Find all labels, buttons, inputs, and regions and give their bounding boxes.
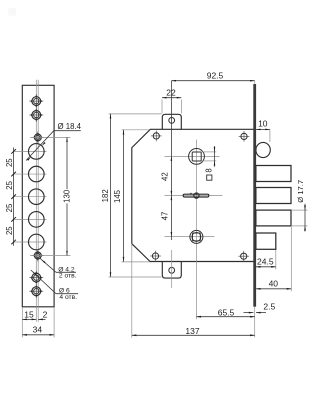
svg-text:2.5: 2.5 <box>263 302 275 312</box>
deadbolt #2 <box>256 188 291 204</box>
cylinder boss (edge view) <box>256 142 270 157</box>
screw hole O6 top #2 <box>29 114 43 116</box>
dimension 22 <box>161 100 163 114</box>
strip centerline (hole axis 1) <box>35 80 37 322</box>
svg-text:47: 47 <box>161 212 170 221</box>
dimension 137 <box>132 334 255 336</box>
svg-text:145: 145 <box>113 189 122 203</box>
dimension chain 25x4 <box>13 148 15 246</box>
fixing hole bottom-left <box>150 255 161 257</box>
faceplate strip outline (side view) <box>22 85 54 306</box>
keyhole slot <box>183 194 209 197</box>
svg-text:25: 25 <box>5 158 14 167</box>
fixing hole bottom-right <box>238 255 249 257</box>
svg-text:25: 25 <box>5 226 14 235</box>
upper follower centerline <box>165 155 220 157</box>
svg-text:182: 182 <box>101 189 110 202</box>
svg-text:25: 25 <box>5 203 14 212</box>
lower follower centerline <box>165 236 215 238</box>
deadbolt #3 <box>256 210 291 226</box>
hole O18.4 #3 <box>29 189 45 205</box>
upper square follower 8mm <box>189 149 205 165</box>
dimension square 8 <box>202 151 217 153</box>
top mounting tab <box>162 114 181 129</box>
screw hole O4.2 top <box>32 136 44 138</box>
deadbolt #1 <box>256 166 291 182</box>
dimension 24.5 <box>275 250 277 270</box>
svg-text:8: 8 <box>205 168 214 172</box>
svg-text:137: 137 <box>185 326 199 336</box>
dimension 145 <box>122 129 150 131</box>
screw hole O6 top #1 <box>29 100 43 102</box>
screw hole O6 bottom #2 <box>29 290 43 292</box>
screw hole O4.2 bottom <box>32 255 44 257</box>
hole O18.4 #4 centerline <box>14 218 47 220</box>
hole O18.4 #1 centerline <box>14 150 47 152</box>
hole O18.4 #2 centerline <box>14 173 47 175</box>
dimension 2.5 <box>244 312 254 314</box>
svg-text:65.5: 65.5 <box>218 307 235 317</box>
lock body outline <box>132 129 254 261</box>
main vertical centerline <box>195 140 197 254</box>
dimension 130 <box>30 136 71 138</box>
body left edge extension <box>131 244 133 338</box>
fixing hole top-left <box>151 135 162 137</box>
svg-text:42: 42 <box>161 172 170 181</box>
dimension 65.5 <box>196 316 254 318</box>
bottom mounting tab <box>162 262 181 279</box>
svg-text:Ø 17.7: Ø 17.7 <box>296 180 305 203</box>
fixing hole top-right <box>239 135 250 137</box>
hole O18.4 #1 <box>29 144 45 160</box>
svg-text:10: 10 <box>258 118 268 128</box>
bottom tab centerline <box>171 250 173 288</box>
faint watermark <box>8 8 16 16</box>
bottom tab hole <box>169 267 175 273</box>
strip edge extension lines <box>21 307 23 338</box>
label O6 4 holes with leader <box>31 270 56 294</box>
keyhole axis extension <box>195 254 197 320</box>
tab centerline / dim line 42-47 <box>170 81 172 240</box>
dimension 15 <box>22 318 36 320</box>
dimension O17.7 <box>292 209 308 211</box>
dimension 40 <box>290 227 292 291</box>
keyhole centerline <box>165 195 223 197</box>
svg-text:22: 22 <box>166 87 176 97</box>
dimension 34 <box>22 334 54 336</box>
hole O18.4 #3 centerline <box>14 196 47 198</box>
svg-text:25: 25 <box>5 180 14 189</box>
dimension 2 <box>38 318 45 320</box>
faceplate lower extension <box>254 307 256 337</box>
svg-text:2: 2 <box>43 309 48 319</box>
svg-text:2 отв.: 2 отв. <box>59 273 77 280</box>
svg-text:24.5: 24.5 <box>257 257 274 267</box>
strip centerline (hole axis 2) <box>37 80 39 322</box>
svg-text:40: 40 <box>269 279 279 289</box>
label O4.2 2 holes with leader <box>40 258 56 272</box>
dimension 92.5 <box>171 80 254 82</box>
dimension 182 <box>109 113 162 115</box>
svg-text:15: 15 <box>24 309 34 319</box>
hole O18.4 #5 <box>29 234 45 250</box>
top tab hole <box>169 118 175 124</box>
screw hole O6 bottom #1 <box>29 277 43 279</box>
dimension 10 <box>256 128 270 130</box>
lower square follower <box>190 230 203 243</box>
faceplate edge view <box>253 84 256 307</box>
svg-text:92.5: 92.5 <box>207 70 224 80</box>
hole O18.4 #4 <box>29 212 45 228</box>
label O18.4 with leader <box>26 131 54 161</box>
svg-text:130: 130 <box>62 189 71 203</box>
svg-text:4 отв.: 4 отв. <box>59 294 77 301</box>
svg-text:Ø 18.4: Ø 18.4 <box>58 122 82 131</box>
hole O18.4 #5 centerline <box>14 241 47 243</box>
latch bolt <box>256 233 276 249</box>
svg-text:34: 34 <box>33 324 43 334</box>
hole O18.4 #2 <box>29 166 45 182</box>
